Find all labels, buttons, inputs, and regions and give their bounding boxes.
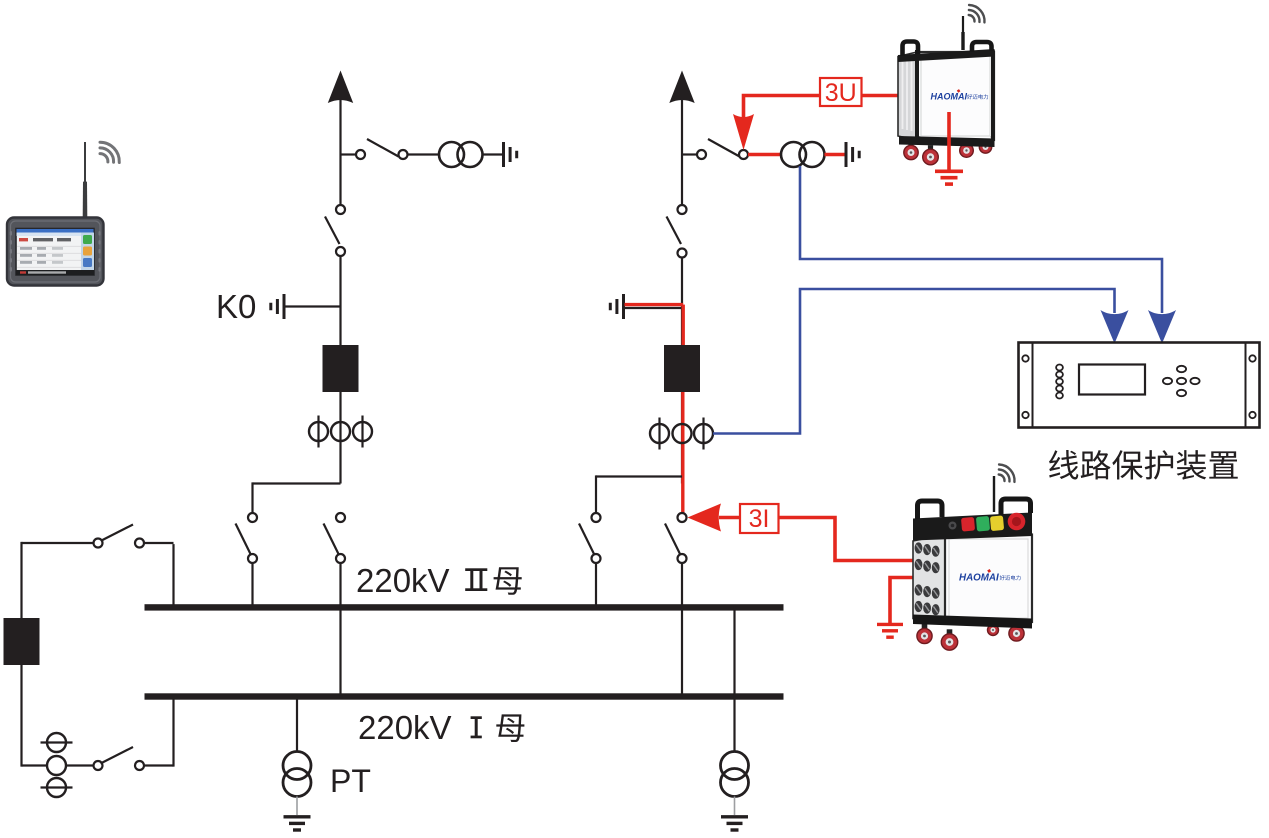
node: line2 PT branch tee <box>682 153 697 155</box>
circuit breaker CB1 (filled box) <box>323 345 359 392</box>
disconnect switch (line2 PT branch) left contact <box>697 150 706 159</box>
wire: coupler top left segment <box>22 542 94 544</box>
wire (red test lead): CB2 down to 3I injection node <box>681 392 684 513</box>
op device: line protection relay chassis <box>1019 343 1260 428</box>
wire (red): voltage test set earth lead <box>947 112 951 170</box>
wire: bus I riser to PT2 <box>733 606 735 752</box>
disconnect switch QS21 bottom contact <box>678 249 687 258</box>
disconnect switch line1-busII top contact <box>248 513 257 522</box>
wire: PT to earth <box>296 797 298 816</box>
wire: to bus II disconnect <box>251 482 253 513</box>
wire: riser up to bus I <box>172 697 174 767</box>
node: line1 PT branch tee <box>341 153 357 155</box>
wire: to bus II disconnect (line2) <box>595 475 597 513</box>
wire: coupler left down to breaker <box>20 542 22 618</box>
wire: QS11 to breaker <box>339 256 341 345</box>
ground: K0 earthing switch (left-facing) <box>283 294 286 319</box>
ground: current test set earth (red) <box>877 623 903 626</box>
bus 220kV II (upper busbar) <box>145 604 784 610</box>
wire: PT2 to earth <box>734 797 736 816</box>
wire: riser down to bus II <box>172 544 174 607</box>
disconnect switch coupler-bottom right contact <box>135 761 144 770</box>
transformer PT2 winding 2 <box>721 769 749 797</box>
line 1 feeder arrow <box>328 71 353 104</box>
svg-text:3I: 3I <box>749 505 770 533</box>
wire (blue secondary): CT2 to relay input 2 <box>713 289 1115 434</box>
disconnect switch line2-busI blade <box>665 524 681 557</box>
transformer: line1 PT winding 2 <box>458 142 483 167</box>
wire: earthing switch to line2 <box>625 307 683 309</box>
wire (red): current test set earth lead <box>890 578 913 624</box>
wire: line2 from arrow to disconnect QS21 <box>681 98 683 205</box>
wire: CB2 to CT2 <box>681 392 683 484</box>
wire: QS21 to breaker CB2 <box>681 258 683 346</box>
wire: K0 earth to line1 <box>285 305 341 307</box>
wire: CB1 to CT1 <box>339 392 341 484</box>
current transformer CT1 (three circles) <box>317 416 319 448</box>
transformer PT winding 1 <box>283 752 311 780</box>
node: 3I injection contact <box>678 513 687 522</box>
transformer: line2 PT winding 1 <box>781 142 806 167</box>
transformer PT winding 2 <box>283 769 311 797</box>
bus 220kV I (lower busbar) <box>145 693 784 699</box>
disconnect switch line2-busII top contact <box>592 513 601 522</box>
svg-text:3U: 3U <box>825 79 857 107</box>
wire: disconnect through bus II to bus I <box>339 563 341 695</box>
wire: coupler top from bus II riser <box>144 542 174 544</box>
arrow: relay input 2 <box>1101 310 1129 344</box>
disconnect switch (line1 PT branch) left contact <box>356 150 365 159</box>
disconnect switch coupler-top left contact <box>94 539 103 548</box>
disconnect switch (line2 PT branch) blade <box>708 139 740 157</box>
ground: line1 PT earth (right-facing) <box>502 142 505 167</box>
circuit breaker coupler (filled box) <box>4 618 40 665</box>
arrow: 3I injection (left) <box>688 504 722 532</box>
device: HAOMAI current test set (3I source) <box>913 465 1032 651</box>
line 2 feeder arrow <box>669 71 694 104</box>
disconnect switch line2-busII bottom contact <box>592 554 601 563</box>
disconnect switch line1-busI top contact <box>336 513 345 522</box>
disconnect switch line1-busII blade <box>236 524 252 557</box>
disconnect switch QS11 top contact <box>336 205 345 214</box>
wire: coupler bottom right segment <box>144 764 174 766</box>
wire: bus selector tee line1 <box>253 482 341 484</box>
disconnect switch line1-busI bottom contact <box>336 554 345 563</box>
wire (red test lead): earthing switch overlay <box>625 303 684 306</box>
wire: bus I to PT <box>296 699 298 752</box>
disconnect switch line1-busI blade <box>324 524 340 557</box>
disconnect switch coupler-top blade <box>101 525 134 542</box>
wire: to line1 PT <box>408 153 440 155</box>
disconnect switch (line1 PT branch) blade <box>367 139 399 157</box>
wire: line1 from arrow to disconnect QS11 <box>339 98 341 205</box>
wire: coupler breaker down <box>20 665 22 767</box>
disconnect switch (line1 PT branch) right contact <box>399 150 408 159</box>
device: HAOMAI voltage test set (3U source) <box>898 5 995 165</box>
disconnect switch line2-busII blade <box>579 524 595 557</box>
current transformer CT2 (three circles) <box>658 418 660 450</box>
ground: line2 earthing switch (left-facing) <box>622 294 625 319</box>
wire (blue secondary): line2 PT to relay input 1 <box>800 166 1162 313</box>
wire (red test lead): line2 PT to ground <box>825 153 846 156</box>
label 3U (boxed) <box>820 78 862 106</box>
ground: line2 PT earth (right-facing) <box>845 142 848 167</box>
arrow: relay input 1 <box>1148 310 1176 344</box>
disconnect switch QS11 blade <box>325 217 340 245</box>
svg-text:HAOMAI: HAOMAI <box>931 92 968 102</box>
wire: line1 PT to ground <box>483 153 504 155</box>
ground: PT earth <box>284 815 311 818</box>
svg-text:220kV: 220kV <box>356 562 450 599</box>
arrow: 3U injection (down) <box>733 114 754 150</box>
svg-text:K0: K0 <box>216 288 256 325</box>
svg-text:HAOMAI: HAOMAI <box>959 573 999 584</box>
disconnect switch coupler-top right contact <box>135 539 144 548</box>
wire: disconnect through bus II to bus I (line2) <box>681 563 683 695</box>
svg-text:PT: PT <box>330 763 371 799</box>
wire (red 3I lead): from current test set <box>719 518 913 561</box>
wire (red test lead): to line2 PT <box>748 153 781 156</box>
circuit breaker CB2 (filled box) <box>664 345 700 392</box>
label 3I (boxed) <box>740 504 779 533</box>
svg-text:220kV: 220kV <box>358 709 452 746</box>
disconnect switch coupler-bottom blade <box>101 747 134 764</box>
wire (red test lead): down line2 to breaker <box>682 305 685 345</box>
transformer PT2 winding 1 <box>721 752 749 780</box>
wire (red 3U lead): from voltage test set to injection arrow <box>744 96 900 119</box>
disconnect switch coupler-bottom left contact <box>94 761 103 770</box>
disconnect switch (line2 PT branch) right contact <box>739 150 748 159</box>
current transformer coupler CT (three stacked circles) <box>41 741 73 743</box>
disconnect switch QS11 bottom contact <box>336 247 345 256</box>
transformer: line1 PT winding 1 <box>439 142 464 167</box>
ground: voltage test set earth (red) <box>935 170 963 174</box>
wire: coupler bottom to CT stack <box>22 764 48 766</box>
wire: disconnect to bus II (line2) <box>595 563 597 606</box>
disconnect switch QS21 top contact <box>678 205 687 214</box>
wire: disconnect to bus II <box>251 563 253 606</box>
disconnect switch line1-busII bottom contact <box>248 554 257 563</box>
transformer: line2 PT winding 2 <box>800 142 825 167</box>
wire: bus selector tee line2 <box>596 475 682 477</box>
label: 线路保护装置 <box>1049 450 1078 479</box>
ground: PT2 earth <box>721 815 748 818</box>
disconnect switch line2-busI bottom contact <box>678 554 687 563</box>
wire: CT to coupler bottom disconnect <box>66 764 94 766</box>
disconnect switch QS21 blade <box>667 217 682 245</box>
device: wireless handheld controller (tablet) <box>7 142 119 286</box>
